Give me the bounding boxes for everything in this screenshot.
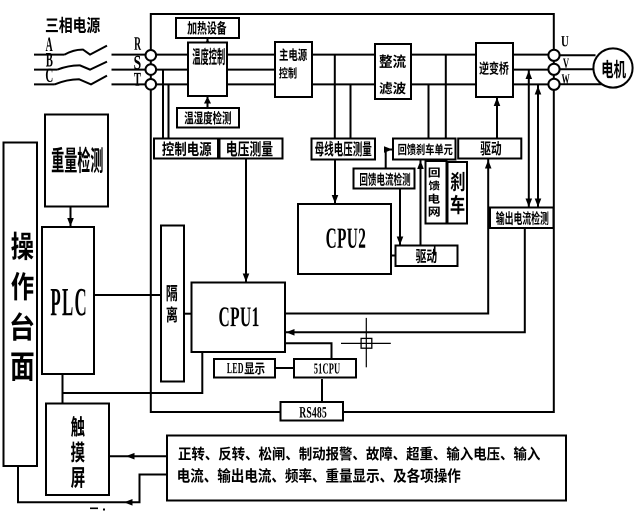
block busbar-voltage-measure 母线电压测量 [312, 139, 376, 160]
wire V-line to output-current-detect [526, 70, 533, 207]
motor 电机 [593, 48, 632, 87]
wire output-current-detect to CPU1 [286, 228, 525, 336]
wire PLC to touchscreen [62, 374, 64, 404]
node R terminal [146, 50, 157, 61]
wire PLC to isolate [94, 294, 161, 296]
wire PLC branch to CPU1 bottom [63, 352, 203, 393]
wire drive to inverter [494, 97, 501, 139]
node C phase line with switch [34, 76, 146, 85]
wire R bus [151, 54, 549, 56]
wire isolate to CPU1 [184, 313, 192, 315]
wire V motor line [560, 68, 594, 70]
label R [134, 37, 141, 49]
wire CPU1 to drive1 [285, 160, 492, 314]
label U [561, 36, 568, 46]
block console 操作台面 [4, 143, 38, 467]
wire CPU1 to 51CPU [285, 343, 332, 359]
label W [562, 74, 570, 83]
wire V line [513, 69, 549, 71]
wire R-bus to busbar-voltage [334, 55, 336, 140]
block isolate 隔离 [161, 226, 184, 382]
block inverter-bridge 逆变桥 [476, 43, 513, 97]
block rectifier-filter 整流滤波 [375, 44, 411, 99]
block main-power-control 主电源控制 [275, 42, 312, 97]
node U terminal [548, 50, 559, 61]
block feedback-current-detect 回馈电流检测 [354, 169, 415, 189]
wire weight-detect to PLC [67, 207, 74, 227]
wire U motor line [560, 54, 596, 56]
block LED-display LED显示 [214, 359, 275, 378]
wire stray stub in drive2 [434, 246, 436, 255]
wire feedback-current to feedback-brake-unit [384, 146, 393, 168]
crosshair cursor [341, 318, 391, 367]
block brake 刹车 [448, 162, 468, 224]
block feedback-grid 回馈电网 [426, 161, 447, 224]
block touchscreen 触摸屏 [46, 404, 109, 496]
label 三相电源 [46, 17, 100, 33]
wire R-bus to feedback-brake [445, 55, 447, 140]
node W terminal [548, 79, 559, 90]
wire heater link [204, 38, 211, 46]
wire busbar-voltage to CPU2 [332, 160, 339, 204]
wire T bus [151, 83, 549, 85]
outer frame [151, 14, 554, 412]
wire drive2 to feedback-brake-unit [417, 160, 424, 246]
block drive1 驱动 [458, 139, 521, 159]
block weight-detect 重量检测 [45, 115, 108, 207]
node T terminal [146, 79, 157, 90]
wire alarmbox to touchscreen [110, 453, 168, 460]
wire T-bus to busbar-voltage [350, 84, 352, 140]
node B phase line with switch [34, 62, 146, 70]
wire feedback-current to drive2 [397, 189, 404, 246]
node V terminal [548, 64, 559, 75]
label C [46, 68, 52, 81]
wire CPU2 to drive2 [391, 255, 396, 257]
block heater 加热设备 [176, 18, 239, 38]
wire alarmbox loop to console [18, 466, 168, 506]
wire LED-display to 51CPU [276, 367, 294, 369]
block CPU1 [192, 283, 286, 353]
block control-power 控制电源 [154, 139, 218, 159]
block RS485 [281, 402, 344, 421]
label T [134, 73, 141, 86]
block PLC [42, 227, 94, 374]
wire voltage-measure to CPU1 [243, 159, 250, 283]
wire W motor line [560, 83, 602, 85]
wire S to control-power [162, 70, 164, 140]
label S [134, 56, 140, 69]
wire temp-humidity link [204, 96, 211, 109]
block 51CPU [294, 359, 356, 378]
wire 51CPU to RS485 [321, 379, 323, 403]
label B [46, 53, 53, 66]
node S terminal [146, 64, 157, 75]
block drive2 驱动 [396, 246, 458, 267]
wire T-bus to feedback-brake [428, 84, 430, 140]
node A phase line with switch [34, 46, 146, 55]
label A [46, 37, 53, 51]
wire W-line to output-current-detect [535, 85, 542, 207]
block output-current-detect 输出电流检测 [490, 208, 554, 229]
block CPU2 [298, 204, 391, 274]
block feedback-brake-unit 回馈刹车单元 [393, 139, 456, 160]
block voltage-measure 电压测量 [220, 139, 283, 159]
wire S bus segment [151, 69, 300, 71]
label V [563, 59, 569, 68]
block temperature-control 温度控制 [188, 43, 227, 97]
stray mark [90, 508, 105, 511]
block temp-humidity-detect 温湿度检测 [177, 108, 239, 128]
block alarm-text-box [167, 436, 566, 501]
wire T to control-power [168, 84, 170, 140]
